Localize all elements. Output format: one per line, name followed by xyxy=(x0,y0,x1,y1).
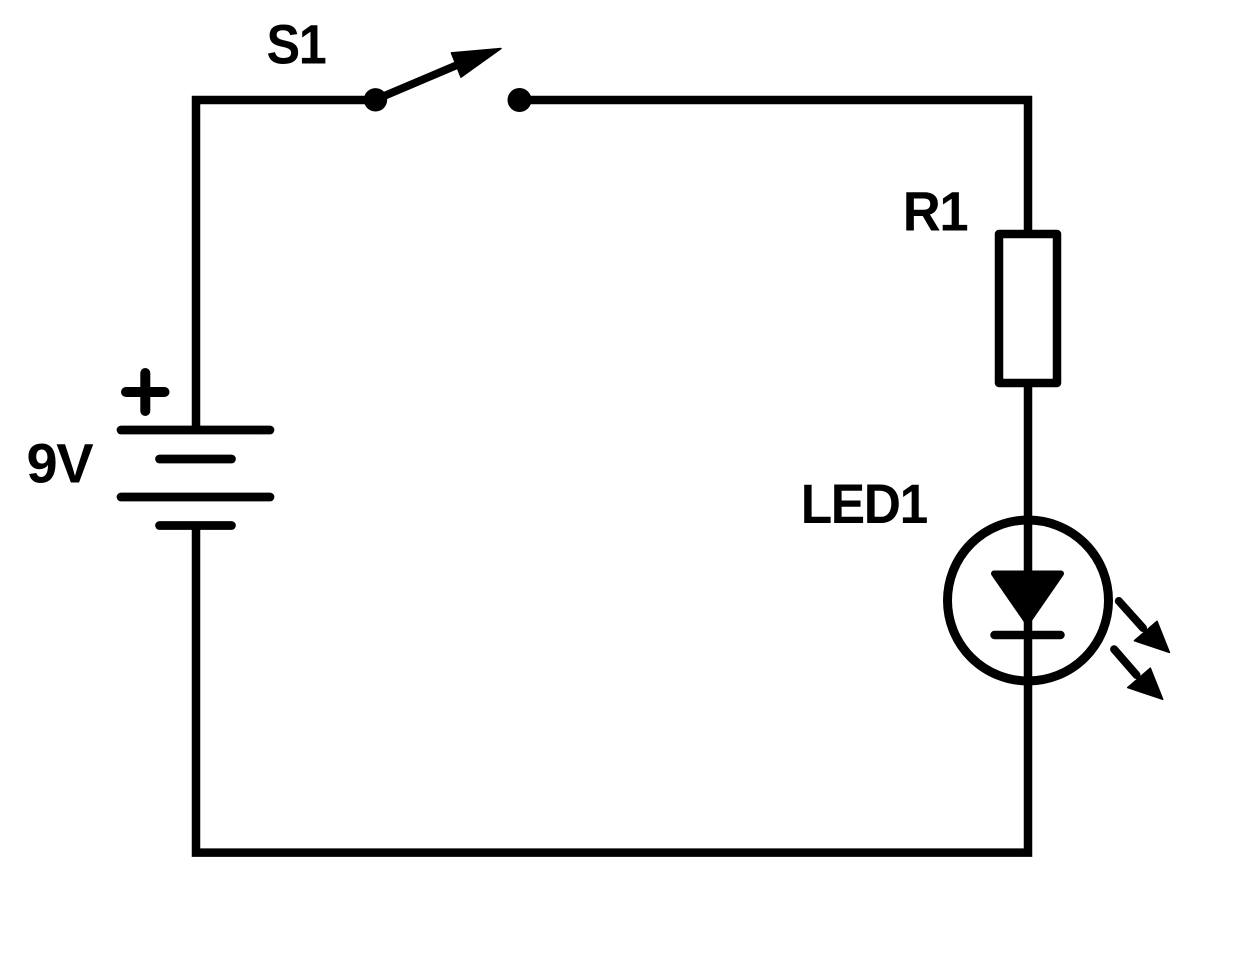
wire top-right horizontal and right vertical to resistor xyxy=(519,100,1028,234)
LED1 light arrow 1 shaft xyxy=(1119,601,1143,628)
switch S1 left contact dot xyxy=(364,88,387,111)
wire left-vertical-upper and top-left horizontal xyxy=(196,100,377,430)
svg-text:LED1: LED1 xyxy=(801,473,928,535)
battery plus sign xyxy=(126,373,165,411)
svg-text:S1: S1 xyxy=(267,14,327,76)
battery plate 1 long positive xyxy=(121,426,270,435)
svg-text:9V: 9V xyxy=(27,432,94,495)
battery plate 2 short negative xyxy=(160,455,232,464)
svg-text:R1: R1 xyxy=(903,180,968,243)
LED1 light arrow 2 head xyxy=(1128,668,1163,699)
LED1 circle xyxy=(948,520,1109,681)
wire resistor to LED to bottom and left vertical lower xyxy=(196,383,1028,853)
switch S1 lever arrowhead xyxy=(451,49,501,78)
battery plate 3 long positive xyxy=(121,493,270,502)
resistor R1 body xyxy=(999,234,1057,383)
switch S1 lever shaft xyxy=(377,66,456,100)
battery plate 4 short negative xyxy=(160,521,232,530)
LED1 light arrow 2 shaft xyxy=(1114,649,1136,675)
LED1 diode triangle xyxy=(994,574,1061,623)
switch S1 right contact dot xyxy=(508,88,532,112)
LED1 cathode bar xyxy=(995,631,1061,640)
LED1 light arrow 1 head xyxy=(1134,621,1169,652)
